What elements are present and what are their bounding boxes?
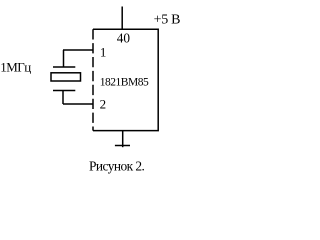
chip box left edge (dashed) (92, 29, 94, 130)
crystal ZQ1 bottom plate (53, 90, 75, 92)
chip D1 1821BM85 (КР1821ВМ85 CPU) (93, 29, 158, 130)
svg-text:1821ВМ85: 1821ВМ85 (100, 76, 149, 88)
svg-text:+5 В: +5 В (154, 13, 181, 28)
wire crystal bottom plate down (62, 91, 64, 105)
wire power stub to pin 40 (121, 7, 123, 30)
svg-text:2: 2 (100, 97, 107, 112)
svg-text:1: 1 (100, 44, 107, 59)
crystal ZQ1 body (51, 73, 81, 81)
wire pin 1 horizontal (63, 49, 94, 51)
wire pin 2 horizontal (63, 103, 94, 105)
chip box 1821BM85 (solid top/right/bottom) (93, 29, 158, 130)
svg-text:Рисунок 2.: Рисунок 2. (89, 158, 145, 173)
wire ground stub (122, 131, 124, 148)
ground (115, 145, 130, 147)
wire pin 1 vertical drop to crystal top plate (63, 50, 65, 67)
svg-text:1МГц: 1МГц (0, 59, 31, 74)
crystal ZQ1 top plate (53, 66, 75, 68)
svg-text:40: 40 (117, 30, 131, 45)
